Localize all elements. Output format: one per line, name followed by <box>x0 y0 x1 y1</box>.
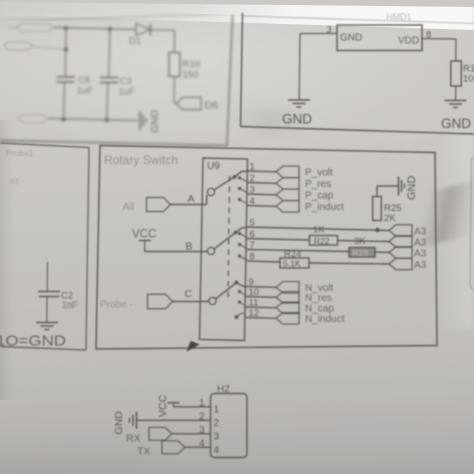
pin 2 number <box>250 173 255 184</box>
wire H2 pin2 <box>137 419 211 421</box>
H2 pin 1 number (inner) <box>214 404 220 415</box>
header H2 body <box>211 394 248 458</box>
wire pin 8 right <box>309 263 389 264</box>
ground H2 pin2 (rotated left) <box>130 412 137 429</box>
label N_cap <box>305 304 334 315</box>
junction node C3 bottom <box>105 118 109 122</box>
flag N net pin 12 <box>276 313 299 325</box>
mechanical coupling dashed line <box>228 176 230 300</box>
contact pin4 <box>238 198 247 204</box>
flag RX <box>149 427 172 440</box>
label VCC rotated (H2) <box>157 394 169 417</box>
pin 10 number <box>249 287 260 298</box>
resistor R10 <box>169 53 180 77</box>
H2 pin 4 number (outer) <box>199 438 205 449</box>
net flag (faded) second <box>4 42 33 50</box>
ground top-left (rotated right) <box>140 111 146 130</box>
diode D1 <box>136 24 151 36</box>
label R22 (in box) <box>314 236 330 246</box>
flag A3 #2 <box>389 236 412 248</box>
label R25 2K <box>384 203 401 224</box>
resistor R25 <box>373 197 382 221</box>
label H2 <box>217 384 230 395</box>
H2 pin 3 number (inner) <box>214 431 220 442</box>
flag A3 #1 <box>389 225 412 237</box>
contact pin11 <box>238 300 246 306</box>
net flag (faded) top-left <box>8 24 54 32</box>
wire pin 6 right <box>338 241 390 242</box>
sheet border: left probe box <box>0 143 89 350</box>
wire pin 2 <box>247 182 276 185</box>
pin 9 number <box>249 277 254 288</box>
pin 6 number <box>250 229 255 240</box>
flag Probe <box>100 294 173 310</box>
label A3 #3 <box>414 249 427 260</box>
flag A3 #3 <box>389 247 412 259</box>
ground IC pin3 <box>288 100 310 107</box>
label pole C <box>185 288 193 300</box>
hook contact pin9 <box>236 283 245 287</box>
flag D6 <box>176 97 201 110</box>
wire pin 11 <box>246 306 277 309</box>
IC U? body <box>337 25 422 51</box>
H2 pin 2 number (outer) <box>199 411 205 422</box>
contact pin3 <box>238 187 247 193</box>
pin 5 number <box>250 218 255 229</box>
wire VCC to pole B <box>145 251 208 253</box>
ground R25 (rotated right) <box>399 177 405 196</box>
pin 8 number <box>426 30 431 41</box>
hook contact pin5 <box>236 228 248 233</box>
label R10 value <box>183 59 200 81</box>
wire R25 to ground <box>377 186 398 197</box>
junction node C3 top <box>108 27 112 31</box>
label A3 #4 <box>414 260 427 271</box>
resistor R1 (clipped at edge) <box>451 61 462 86</box>
junction node flag2-C8 <box>64 47 68 51</box>
contact dot pole C <box>234 281 238 285</box>
label U9 <box>207 161 220 172</box>
capacitor C8 <box>57 28 76 120</box>
label RX <box>126 433 141 445</box>
wire pin 5 to A3 flag <box>247 227 389 231</box>
contact pin7 <box>238 243 247 249</box>
label N_induct <box>305 314 345 325</box>
flag P net pin 2 <box>276 178 299 190</box>
wire pin 12 <box>246 317 277 320</box>
pin 7 number <box>250 240 255 251</box>
label P_res <box>305 179 331 190</box>
hook contact pin1 <box>235 171 248 177</box>
label A3 #1 <box>414 227 427 238</box>
label GND (IC pin) <box>340 33 362 44</box>
H2 pin 3 number (outer) <box>199 425 205 436</box>
label GND rotated (H2) <box>113 411 125 435</box>
adjacent page frame (faint, right edge) <box>470 156 474 290</box>
flag A3 #4 <box>389 258 412 270</box>
contact pin2 <box>238 176 247 181</box>
H2 pin 1 number (outer) <box>199 398 205 409</box>
junction node C8 top <box>64 26 68 30</box>
power VCC symbol (H2) <box>168 403 180 407</box>
contact pin6 <box>238 232 247 238</box>
wire pin 3 <box>247 193 276 196</box>
label P_cap <box>305 191 334 202</box>
contact dot pole B <box>234 231 238 235</box>
label VDD (IC pin) <box>398 36 419 47</box>
label VCC (pole B) <box>132 229 156 241</box>
flag N net pin 9 <box>276 282 299 294</box>
wire flag2 to C8 <box>33 47 66 50</box>
pin 12 number <box>249 308 260 319</box>
ground C2 <box>36 323 58 330</box>
flag All <box>123 198 171 214</box>
pin 8 number <box>250 252 255 263</box>
label P_volt <box>305 168 333 179</box>
contact dot pole A <box>233 175 237 179</box>
contact pin8 <box>238 254 247 260</box>
wire All to pole A <box>171 195 207 205</box>
junction node C8 bottom <box>61 117 65 121</box>
label IC name (faded, above box) <box>386 12 412 22</box>
wire Probe to pole C <box>173 301 209 303</box>
pole A wiper <box>207 177 234 196</box>
label TX <box>137 446 150 458</box>
label pole B <box>186 241 193 253</box>
junction R25 bottom <box>375 228 379 232</box>
pole C wiper <box>209 283 236 305</box>
wire into C2 <box>46 262 48 291</box>
label C3 <box>119 76 136 98</box>
label pole A <box>188 193 195 205</box>
label D6 <box>205 100 219 112</box>
wire R10 to D6 <box>173 77 176 104</box>
switch U9 body <box>200 158 248 341</box>
wire pin 4 <box>247 205 276 208</box>
label P_induct <box>305 202 344 213</box>
flag P net pin 3 <box>276 189 299 201</box>
wire top rail <box>54 28 136 30</box>
label N_res <box>305 293 332 304</box>
sheet border: bottom edge of top-left schematic box <box>0 15 233 146</box>
label 5.1K (in box) <box>283 259 301 269</box>
net flag (faded) bottom rail <box>18 115 48 123</box>
label A3 #2 <box>414 238 427 249</box>
label GND under R1 ground <box>441 116 471 131</box>
resistor R22 <box>310 236 338 246</box>
resistor R23 <box>349 248 375 258</box>
capacitor C3 <box>100 29 118 120</box>
pin 3 number <box>250 185 255 196</box>
title Rotary Switch <box>104 153 178 167</box>
faded text in left box <box>6 148 34 186</box>
wire pin 1 <box>247 170 276 173</box>
wire IC pin8 to R1 <box>422 39 456 62</box>
sheet border: rotary switch box <box>96 146 437 350</box>
contact pin10 <box>238 290 246 296</box>
wire H2 pin3 <box>172 433 211 435</box>
wire D1 to R10 <box>151 30 175 53</box>
label D1 <box>129 36 141 47</box>
wire pin 6 left <box>247 239 310 241</box>
sheet border: top-right schematic box <box>241 13 474 134</box>
resistor R24 (5.1K in box) <box>280 258 309 268</box>
label C8 <box>77 75 94 97</box>
label R1 (clipped) <box>463 64 474 85</box>
wire pin 9 <box>246 286 277 289</box>
contact pin12 <box>235 313 246 319</box>
wire H2 pin4 <box>185 446 211 448</box>
wire bottom rail <box>48 119 138 121</box>
label 3K <box>354 236 366 247</box>
flag TX <box>162 441 185 454</box>
label C2 <box>61 291 78 311</box>
label N_volt <box>305 283 334 294</box>
H2 pin 4 number (inner) <box>214 445 220 456</box>
wire pin 7 right <box>375 251 389 254</box>
capacitor C2 <box>38 292 60 323</box>
pole B wiper <box>207 233 235 255</box>
flag N net pin 11 <box>276 302 299 314</box>
flag N net pin 10 <box>276 292 299 304</box>
label 1K <box>313 225 325 236</box>
wire pin 7 left <box>247 250 349 252</box>
wire R1 to ground <box>455 86 457 100</box>
label GND rotated (top-left) <box>149 109 161 133</box>
label 1O=GND (large, clipped left) <box>0 334 66 350</box>
wire pin 10 <box>246 296 277 299</box>
pin 11 number <box>249 298 259 309</box>
H2 pin 2 number (inner) <box>214 418 220 429</box>
label GND under pin3 ground <box>282 112 312 127</box>
label GND rotated (R25) <box>406 176 418 201</box>
label R24 <box>284 249 301 260</box>
label R23 (in box) <box>353 248 369 258</box>
power VCC bar <box>139 241 152 252</box>
pin 1 number <box>250 162 255 173</box>
pin 3 number <box>327 25 332 36</box>
flag P net pin 4 <box>276 201 299 213</box>
pin 4 number <box>250 196 255 207</box>
ground R1 <box>445 101 467 108</box>
flag P net pin 1 <box>276 166 299 178</box>
wire H2 pin1 <box>174 406 211 408</box>
wire IC pin3 to ground <box>299 34 337 100</box>
wire pin 8 left <box>247 261 280 262</box>
page marker (dark arrow) <box>188 342 199 351</box>
